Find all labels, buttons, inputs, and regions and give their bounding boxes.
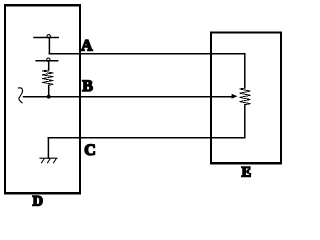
wire B (node B horizontal run) bbox=[24, 96, 233, 98]
junction dot on wire B bbox=[47, 95, 51, 99]
wire: ground stub bbox=[47, 138, 49, 159]
svg-text:A: A bbox=[81, 37, 93, 54]
box D (left instrument enclosure) bbox=[5, 5, 80, 193]
wire C (node C horizontal run) bbox=[48, 137, 244, 139]
resistor R2 (potentiometer element in box E) bbox=[240, 88, 251, 105]
arrowhead (potentiometer wiper) bbox=[232, 94, 238, 99]
terminal circle T1 bbox=[47, 35, 50, 38]
squiggle lead (flexible-wire break at left of B) bbox=[18, 88, 22, 103]
svg-text:C: C bbox=[84, 142, 96, 159]
terminal bar T1 (top) bbox=[34, 37, 58, 39]
wire: T1 down bbox=[48, 38, 50, 54]
wire: box E right drop (A to R2 top) bbox=[244, 54, 246, 88]
terminal bar T2 (middle) bbox=[36, 60, 58, 62]
resistor R1 (in box D) bbox=[42, 70, 53, 85]
svg-text:D: D bbox=[33, 194, 43, 210]
svg-text:E: E bbox=[242, 165, 252, 181]
wire A (node A horizontal run) bbox=[49, 53, 244, 55]
svg-text:B: B bbox=[82, 78, 93, 95]
terminal circle T2 bbox=[47, 58, 50, 61]
box E (right instrument enclosure) bbox=[211, 32, 281, 163]
ground (chassis) bbox=[40, 158, 57, 163]
wire: R2 bottom to C bbox=[244, 105, 246, 138]
wire: T2 to resistor R1 bbox=[48, 62, 50, 71]
wire: R1 to node B bbox=[48, 85, 50, 96]
